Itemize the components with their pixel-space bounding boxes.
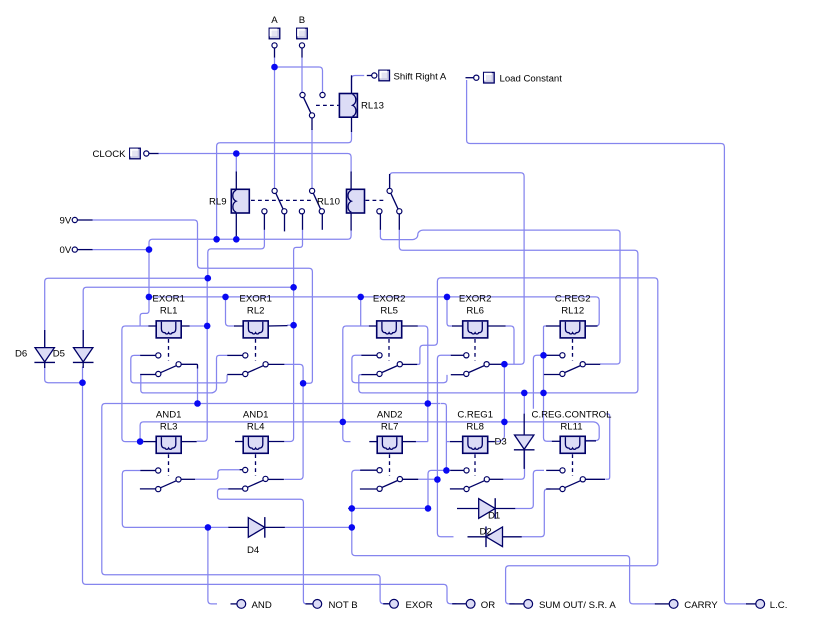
- svg-text:CLOCK: CLOCK: [93, 149, 127, 160]
- svg-text:Shift Right A: Shift Right A: [394, 72, 447, 83]
- svg-text:0V: 0V: [60, 245, 72, 256]
- svg-text:9V: 9V: [60, 216, 72, 227]
- svg-text:OR: OR: [481, 600, 495, 611]
- svg-text:D2: D2: [480, 527, 492, 538]
- svg-text:EXOR1: EXOR1: [239, 294, 272, 305]
- svg-text:C.REG1: C.REG1: [457, 409, 493, 420]
- svg-text:RL3: RL3: [160, 421, 178, 432]
- svg-text:RL1: RL1: [160, 306, 178, 317]
- svg-text:NOT B: NOT B: [329, 600, 358, 611]
- svg-text:SUM OUT/ S.R. A: SUM OUT/ S.R. A: [539, 600, 616, 611]
- svg-text:A: A: [271, 15, 278, 26]
- svg-text:D6: D6: [15, 349, 27, 360]
- svg-text:RL12: RL12: [561, 306, 584, 317]
- svg-text:EXOR1: EXOR1: [152, 294, 185, 305]
- svg-text:D4: D4: [247, 545, 260, 556]
- svg-text:Load Constant: Load Constant: [500, 73, 563, 84]
- svg-text:AND2: AND2: [377, 409, 403, 420]
- svg-text:AND: AND: [252, 600, 272, 611]
- svg-text:AND1: AND1: [156, 409, 182, 420]
- svg-text:RL4: RL4: [247, 421, 265, 432]
- svg-text:L.C.: L.C.: [770, 600, 788, 611]
- svg-text:EXOR: EXOR: [406, 600, 433, 611]
- svg-text:CARRY: CARRY: [684, 600, 718, 611]
- svg-text:RL11: RL11: [560, 421, 582, 432]
- svg-text:C.REG2: C.REG2: [555, 294, 591, 305]
- svg-text:B: B: [299, 15, 305, 26]
- svg-text:RL6: RL6: [466, 306, 484, 317]
- svg-text:D5: D5: [53, 349, 65, 360]
- svg-text:RL9: RL9: [209, 197, 227, 208]
- svg-text:C.REG.CONTROL: C.REG.CONTROL: [532, 409, 613, 420]
- svg-text:EXOR2: EXOR2: [459, 294, 492, 305]
- svg-text:RL8: RL8: [466, 421, 484, 432]
- svg-text:RL7: RL7: [381, 421, 399, 432]
- svg-text:RL2: RL2: [247, 306, 265, 317]
- svg-text:D1: D1: [488, 511, 500, 522]
- svg-text:RL13: RL13: [361, 101, 384, 112]
- svg-text:AND1: AND1: [243, 409, 269, 420]
- svg-text:RL5: RL5: [380, 306, 398, 317]
- svg-text:EXOR2: EXOR2: [373, 294, 406, 305]
- svg-text:RL10: RL10: [317, 197, 340, 208]
- svg-text:D3: D3: [495, 437, 507, 448]
